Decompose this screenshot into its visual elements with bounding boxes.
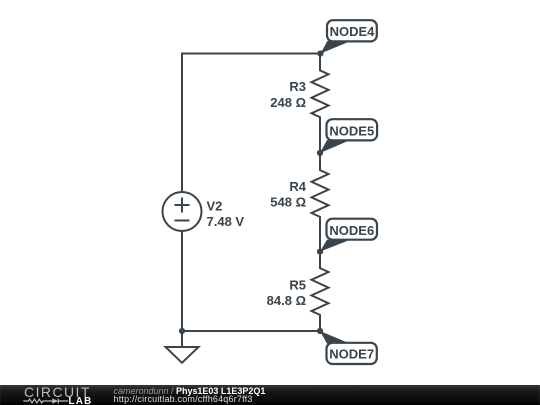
svg-text:84.8 Ω: 84.8 Ω	[267, 293, 306, 308]
svg-text:NODE5: NODE5	[329, 123, 374, 138]
svg-text:LAB: LAB	[69, 396, 93, 405]
svg-text:R4: R4	[289, 179, 306, 194]
CircuitLab logo mini schematic (resistor + diode)	[23, 398, 68, 403]
svg-text:548 Ω: 548 Ω	[270, 194, 306, 209]
svg-text:http://circuitlab.com/cffh64q6: http://circuitlab.com/cffh64q6r7ff3	[114, 394, 253, 404]
svg-text:NODE7: NODE7	[329, 347, 374, 362]
resistor R3	[312, 54, 329, 154]
node NODE6 junction dot	[317, 249, 323, 255]
resistor R4	[312, 153, 329, 252]
footer bar	[0, 385, 540, 405]
node NODE5 junction dot	[317, 150, 323, 156]
resistor R5	[312, 252, 329, 331]
svg-text:V2: V2	[207, 198, 223, 213]
voltage source V2	[163, 192, 202, 231]
NODE6 flag pointer	[320, 240, 348, 252]
svg-text:NODE4: NODE4	[330, 24, 376, 39]
node NODE7 junction dot	[317, 328, 323, 334]
NODE4 flag pointer	[321, 41, 349, 54]
NODE5 label	[327, 119, 378, 140]
svg-text:R3: R3	[289, 79, 306, 94]
ground	[181, 331, 183, 347]
NODE4 label	[327, 20, 377, 41]
wire top horizontal	[182, 53, 320, 55]
svg-text:R5: R5	[289, 278, 306, 293]
NODE7 label	[327, 343, 377, 364]
wire bottom horizontal	[182, 330, 320, 332]
NODE5 flag pointer	[320, 140, 348, 153]
svg-text:7.48 V: 7.48 V	[207, 214, 245, 229]
svg-text:248 Ω: 248 Ω	[270, 95, 306, 110]
node A junction dot top	[317, 50, 323, 56]
svg-text:NODE6: NODE6	[329, 223, 374, 238]
NODE6 label	[327, 219, 378, 240]
node ground junction dot	[179, 328, 185, 334]
NODE7 flag pointer	[320, 331, 348, 344]
wire left vertical upper	[181, 54, 183, 193]
wire left vertical lower	[181, 231, 183, 331]
